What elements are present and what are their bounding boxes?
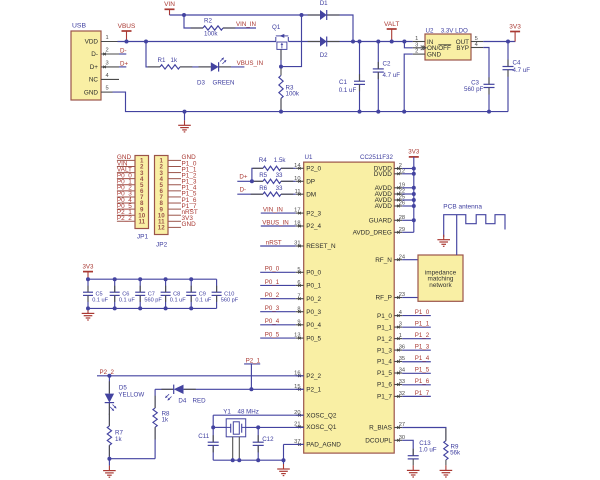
svg-text:P1_0: P1_0 (415, 309, 430, 316)
svg-text:P1_2: P1_2 (415, 332, 430, 339)
svg-text:0.1 uF: 0.1 uF (170, 298, 186, 304)
svg-text:D1: D1 (320, 0, 328, 7)
svg-text:P2_3: P2_3 (306, 210, 321, 217)
svg-text:XOSC_Q1: XOSC_Q1 (306, 424, 337, 431)
svg-text:C10: C10 (224, 291, 234, 297)
svg-text:VDD: VDD (85, 39, 99, 46)
svg-text:C6: C6 (122, 291, 129, 297)
svg-text:Q1: Q1 (272, 24, 281, 31)
svg-text:R5: R5 (259, 172, 267, 179)
svg-text:3V3: 3V3 (408, 149, 420, 156)
svg-text:0.1 uF: 0.1 uF (119, 298, 135, 304)
svg-text:3.3V LDO: 3.3V LDO (441, 27, 468, 34)
svg-text:NC: NC (89, 77, 99, 84)
svg-text:U2: U2 (426, 27, 434, 34)
svg-text:1k: 1k (171, 57, 178, 64)
svg-text:P1_6: P1_6 (377, 382, 392, 389)
svg-text:PCB antenna: PCB antenna (443, 204, 482, 211)
svg-text:P1_7: P1_7 (415, 390, 430, 397)
svg-text:R4: R4 (259, 157, 267, 164)
svg-text:D2: D2 (320, 52, 328, 59)
svg-text:DCOUPL: DCOUPL (365, 438, 392, 445)
svg-text:33: 33 (276, 185, 283, 192)
svg-text:P0_0: P0_0 (306, 270, 321, 277)
svg-text:P0_5: P0_5 (265, 332, 280, 339)
svg-text:VIN_IN: VIN_IN (236, 21, 256, 28)
svg-text:R6: R6 (259, 185, 267, 192)
svg-text:D+: D+ (90, 64, 99, 71)
svg-text:VIN: VIN (164, 1, 175, 8)
svg-text:0.1 uF: 0.1 uF (339, 87, 357, 94)
svg-text:1k: 1k (162, 417, 169, 424)
svg-text:P0_1: P0_1 (265, 279, 280, 286)
svg-text:D-: D- (91, 51, 98, 58)
svg-text:RF_N: RF_N (375, 257, 392, 264)
svg-text:2: 2 (415, 49, 418, 55)
svg-text:4.7 uF: 4.7 uF (513, 67, 531, 74)
svg-text:VBUS: VBUS (118, 23, 136, 30)
svg-text:1k: 1k (115, 436, 122, 443)
svg-text:P0_4: P0_4 (306, 322, 321, 329)
svg-text:P2_1: P2_1 (306, 387, 321, 394)
svg-text:GND: GND (427, 52, 441, 59)
svg-text:1: 1 (415, 36, 418, 42)
svg-text:P1_3: P1_3 (415, 344, 430, 351)
svg-text:VIN_IN: VIN_IN (263, 207, 283, 214)
svg-text:JP2: JP2 (156, 242, 168, 249)
svg-text:VALT: VALT (384, 21, 399, 28)
svg-text:P1_2: P1_2 (377, 336, 392, 343)
svg-text:D+: D+ (239, 174, 247, 181)
svg-text:P0_0: P0_0 (265, 266, 280, 273)
svg-text:XOSC_Q2: XOSC_Q2 (306, 412, 337, 419)
svg-text:nRST: nRST (266, 239, 282, 246)
svg-text:P2_1: P2_1 (246, 357, 261, 364)
svg-text:P2_2: P2_2 (306, 373, 321, 380)
svg-text:3V3: 3V3 (509, 23, 521, 30)
svg-text:560 pF: 560 pF (221, 298, 239, 304)
svg-text:BYP: BYP (456, 45, 469, 52)
svg-text:P1_5: P1_5 (377, 370, 392, 377)
svg-text:AVDD_DREG: AVDD_DREG (353, 230, 392, 237)
svg-text:CC2511F32: CC2511F32 (360, 154, 393, 161)
svg-text:P1_7: P1_7 (377, 394, 392, 401)
svg-text:48 MHz: 48 MHz (238, 409, 259, 416)
svg-text:11: 11 (138, 219, 145, 226)
svg-text:P0_2: P0_2 (265, 292, 280, 299)
svg-text:DVDD: DVDD (374, 171, 392, 178)
svg-text:C7: C7 (148, 291, 155, 297)
svg-text:C9: C9 (199, 291, 206, 297)
svg-text:P0_5: P0_5 (306, 335, 321, 342)
svg-text:C11: C11 (198, 433, 209, 440)
svg-text:P0_3: P0_3 (306, 309, 321, 316)
svg-text:1: 1 (106, 35, 109, 41)
svg-text:R2: R2 (204, 18, 212, 25)
svg-text:VBUS_IN: VBUS_IN (237, 60, 263, 67)
svg-text:Y1: Y1 (223, 409, 231, 416)
svg-text:RESET_N: RESET_N (306, 243, 336, 250)
svg-text:RED: RED (193, 398, 207, 405)
svg-text:P1_0: P1_0 (377, 313, 392, 320)
svg-text:C1: C1 (339, 79, 347, 86)
svg-text:C4: C4 (513, 60, 521, 67)
svg-text:P1_6: P1_6 (415, 378, 430, 385)
svg-text:4: 4 (106, 73, 109, 79)
svg-text:VBUS_IN: VBUS_IN (262, 219, 288, 226)
svg-text:YELLOW: YELLOW (118, 392, 144, 399)
svg-text:D4: D4 (178, 398, 186, 405)
svg-text:P0_2: P0_2 (306, 296, 321, 303)
svg-text:DM: DM (306, 191, 316, 198)
svg-text:D3: D3 (197, 80, 205, 87)
svg-text:100k: 100k (286, 90, 300, 97)
svg-text:R_BIAS: R_BIAS (369, 425, 392, 432)
svg-text:DP: DP (306, 179, 315, 186)
svg-text:34: 34 (399, 368, 405, 374)
svg-text:33: 33 (399, 379, 405, 385)
svg-text:P1_1: P1_1 (415, 321, 430, 328)
svg-text:D-: D- (240, 187, 247, 194)
svg-text:P0_1: P0_1 (306, 283, 321, 290)
svg-text:P2_2: P2_2 (100, 369, 115, 376)
svg-text:12: 12 (158, 225, 165, 232)
svg-text:GND: GND (84, 89, 99, 96)
svg-text:4.7 uF: 4.7 uF (383, 72, 401, 79)
svg-text:P1_4: P1_4 (415, 355, 430, 362)
svg-text:3: 3 (106, 60, 109, 66)
svg-text:P1_1: P1_1 (377, 324, 392, 331)
svg-text:GND: GND (182, 221, 197, 228)
svg-text:GUARD: GUARD (369, 218, 392, 225)
svg-text:D5: D5 (119, 385, 127, 392)
svg-text:JP1: JP1 (137, 234, 149, 241)
svg-text:U1: U1 (305, 154, 313, 161)
svg-text:C2: C2 (383, 61, 391, 68)
svg-text:5: 5 (106, 86, 109, 92)
svg-text:33: 33 (276, 172, 283, 179)
svg-text:RF_P: RF_P (376, 295, 392, 302)
svg-text:P1_3: P1_3 (377, 347, 392, 354)
svg-text:2: 2 (106, 47, 109, 53)
svg-text:P1_4: P1_4 (377, 359, 392, 366)
svg-text:560 pF: 560 pF (144, 298, 162, 304)
svg-text:56k: 56k (450, 450, 461, 457)
svg-text:0.1 uF: 0.1 uF (92, 298, 108, 304)
svg-text:C12: C12 (262, 436, 274, 443)
svg-text:network: network (429, 282, 452, 289)
svg-text:P2_2: P2_2 (117, 215, 132, 222)
svg-text:C5: C5 (96, 291, 103, 297)
svg-text:3: 3 (415, 42, 418, 48)
svg-text:560 pF: 560 pF (464, 86, 483, 93)
svg-text:PAD_AGND: PAD_AGND (306, 442, 341, 449)
svg-text:3V3: 3V3 (82, 263, 94, 270)
svg-text:P2_4: P2_4 (306, 223, 321, 230)
svg-text:P2_0: P2_0 (306, 166, 321, 173)
svg-text:1.5k: 1.5k (274, 157, 287, 164)
svg-text:1.0 uF: 1.0 uF (419, 447, 437, 454)
svg-text:100k: 100k (204, 30, 218, 37)
svg-text:R1: R1 (158, 57, 166, 64)
svg-text:0.1 uF: 0.1 uF (195, 298, 211, 304)
svg-text:4: 4 (475, 42, 478, 48)
svg-text:P0_4: P0_4 (265, 318, 280, 325)
svg-text:AVDD: AVDD (375, 203, 393, 210)
svg-text:C8: C8 (173, 291, 180, 297)
svg-text:P0_3: P0_3 (265, 305, 280, 312)
svg-text:GREEN: GREEN (213, 80, 235, 87)
svg-text:USB: USB (72, 23, 86, 30)
svg-text:P1_5: P1_5 (415, 367, 430, 374)
